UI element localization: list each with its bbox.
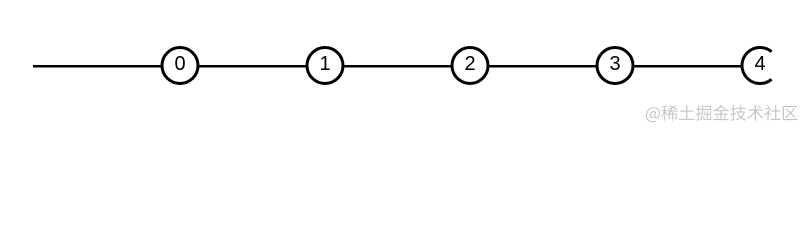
- svg-text:1: 1: [319, 53, 330, 75]
- svg-text:3: 3: [609, 53, 620, 75]
- svg-text:4: 4: [754, 53, 765, 75]
- svg-text:2: 2: [464, 53, 475, 75]
- svg-text:0: 0: [174, 53, 185, 75]
